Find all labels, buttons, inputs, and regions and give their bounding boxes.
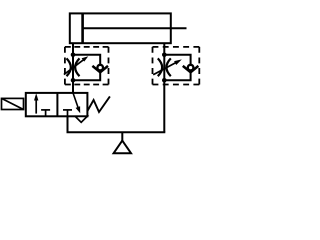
flow control valve V2 dashed enclosure (right): [153, 47, 200, 85]
V1 throttle adjustment arrow: [64, 58, 86, 74]
compressed air supply triangle: [114, 141, 131, 154]
return spring: [87, 96, 110, 112]
valve exhaust port 3 triangle: [75, 116, 87, 122]
V2 internal bypass loop: [164, 55, 190, 81]
flow control valve V1 dashed enclosure (left): [65, 47, 109, 85]
manual actuator lever: [2, 98, 24, 109]
wire: cylinder left port down to valve port 2: [72, 43, 74, 93]
cylinder rod: [83, 27, 187, 29]
right position blocked port: [67, 110, 69, 116]
V2 check valve ball: [188, 65, 194, 71]
wire: bottom rail: [68, 116, 165, 133]
V1 check valve ball: [97, 65, 103, 71]
junction node V1 bottom: [71, 78, 76, 83]
right position flow arrow (2 to 3): [73, 93, 79, 110]
left position blocked port: [45, 110, 47, 116]
3/2 directional valve body: [26, 93, 88, 116]
junction node V2 bottom: [162, 78, 167, 83]
V1 internal bypass loop: [73, 55, 100, 81]
cylinder piston: [81, 13, 84, 43]
3/2 valve position divider: [56, 93, 58, 116]
junction node V2 top: [162, 53, 167, 58]
left position flow arrow (1 to 2): [35, 96, 37, 113]
V2 check valve seat: [183, 66, 199, 72]
junction node V1 top: [71, 53, 76, 58]
V1 check valve seat: [92, 66, 108, 72]
V2 throttle arcs: [158, 58, 162, 76]
wire: cylinder right port down to bottom rail: [163, 43, 165, 132]
V1 throttle arcs: [67, 58, 71, 76]
cylinder barrel: [70, 13, 171, 43]
V2 throttle adjustment arrow: [153, 62, 177, 75]
compressed air supply stub: [121, 132, 123, 141]
